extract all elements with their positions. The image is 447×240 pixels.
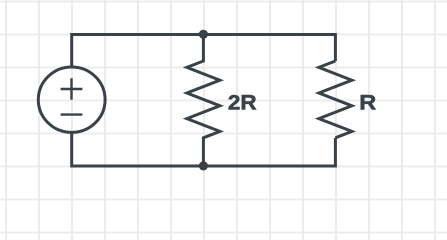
wire top rail from source to right branch (72, 35, 336, 68)
resistor R zigzag (319, 61, 352, 138)
junction node top (199, 30, 208, 39)
svg-text:2R: 2R (228, 90, 257, 114)
label 2R (228, 90, 257, 114)
svg-text:R: R (359, 91, 376, 115)
wire bottom rail from source to right branch (72, 133, 336, 167)
label R (359, 91, 376, 115)
voltage source V1 circle (38, 67, 105, 132)
voltage source plus sign (61, 78, 83, 100)
junction node bottom (199, 161, 208, 170)
voltage source minus sign (61, 113, 83, 115)
resistor 2R zigzag (187, 35, 220, 167)
